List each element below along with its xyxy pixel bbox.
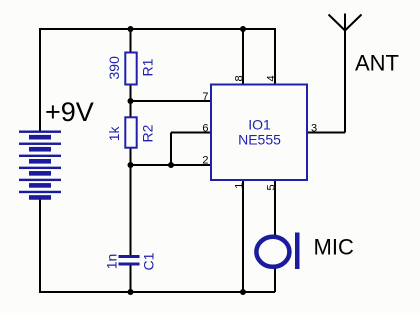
wire pin 5 mic bottom <box>274 268 276 292</box>
junction dot R1 bottom / pin 7 <box>128 98 134 104</box>
wire C1 top <box>130 165 132 255</box>
svg-text:5: 5 <box>266 184 278 190</box>
capacitor C1 <box>119 255 140 266</box>
wire battery top vertical <box>39 28 41 131</box>
svg-text:3: 3 <box>311 122 317 134</box>
junction dot pin 6 branch <box>168 162 174 168</box>
wire top rail <box>39 28 275 30</box>
svg-text:R2: R2 <box>140 124 156 142</box>
wire C1 bottom <box>130 266 132 293</box>
IC IO1 NE555 body <box>211 85 307 181</box>
wire R1 bottom <box>130 85 132 117</box>
junction dot bottom rail pin 1 <box>240 289 246 295</box>
wire pin 7 horizontal <box>131 100 212 102</box>
svg-text:390: 390 <box>106 56 122 80</box>
svg-text:1: 1 <box>234 183 246 189</box>
svg-text:2: 2 <box>202 155 208 167</box>
svg-text:4: 4 <box>265 75 277 81</box>
wire pin 8 vertical <box>242 29 244 84</box>
wire pin 6 vertical <box>170 133 172 166</box>
svg-text:7: 7 <box>202 91 208 103</box>
antenna left prong <box>329 15 346 31</box>
resistor R2 <box>125 117 136 147</box>
wire pin 4 vertical <box>274 28 276 84</box>
antenna right prong <box>345 15 362 31</box>
svg-text:ANT: ANT <box>355 51 399 76</box>
antenna ANT mast <box>344 14 346 133</box>
svg-text:IO1: IO1 <box>248 117 271 133</box>
svg-text:1n: 1n <box>104 254 120 270</box>
wire pin 6 horizontal <box>171 132 211 134</box>
junction dot top rail R1 <box>128 26 134 32</box>
resistor R1 <box>125 53 136 85</box>
svg-text:+9V: +9V <box>45 97 94 127</box>
wire pin 5 top <box>274 180 276 236</box>
junction dot bottom rail C1 <box>128 289 134 295</box>
svg-text:6: 6 <box>202 123 208 135</box>
svg-text:NE555: NE555 <box>238 132 281 148</box>
battery B1 <box>19 131 61 200</box>
svg-text:1k: 1k <box>106 126 122 142</box>
wire pin 3 horizontal <box>306 132 345 134</box>
microphone MIC circle <box>256 237 289 267</box>
wire bottom rail <box>39 291 275 293</box>
wire R2 bottom <box>130 149 132 166</box>
svg-text:R1: R1 <box>140 58 156 76</box>
svg-text:C1: C1 <box>141 252 157 270</box>
wire pin 2 horizontal <box>131 164 212 166</box>
wire battery bottom vertical <box>39 200 41 294</box>
junction dot R2 bottom / pin 2 <box>128 162 134 168</box>
microphone MIC bar <box>295 233 300 270</box>
svg-text:8: 8 <box>234 75 246 81</box>
junction dot top rail pin 8 <box>240 26 246 32</box>
svg-text:MIC: MIC <box>314 235 354 260</box>
wire pin 1 vertical <box>242 180 244 292</box>
wire R1 top <box>130 29 132 53</box>
